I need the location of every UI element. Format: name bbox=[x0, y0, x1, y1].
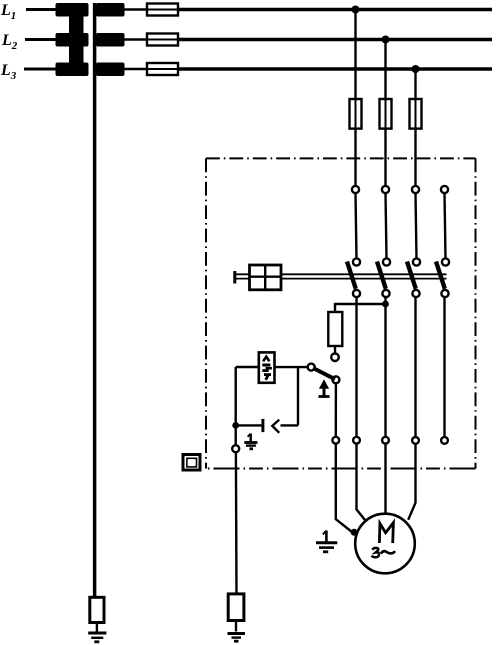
wire W to motor bbox=[408, 444, 415, 520]
wire L1 lead-in bbox=[26, 8, 56, 11]
trip latch arrow bbox=[319, 379, 329, 389]
terminal spare bbox=[441, 437, 448, 444]
wire L1 bus bbox=[178, 8, 492, 12]
wire pole 3 down bbox=[414, 297, 416, 437]
enclosure boundary bottom bbox=[206, 468, 476, 470]
wire pole 1 down bbox=[355, 297, 357, 436]
isolator blade pole 3 bbox=[416, 193, 417, 258]
isolator blade pole 1 bbox=[356, 193, 357, 258]
wire V to motor bbox=[384, 444, 386, 514]
operator box bbox=[250, 265, 282, 290]
terminal block L1 left bbox=[56, 3, 89, 17]
fuse F4 (branch fuse L1) bbox=[355, 99, 357, 129]
linkage bar lower bbox=[236, 278, 447, 280]
switch blade pole 3 bbox=[407, 262, 416, 289]
plug arrow bbox=[272, 420, 279, 433]
wire fuse F6 to switch pole 3 bbox=[414, 129, 416, 186]
wire protection box to trip contact bbox=[275, 366, 308, 368]
trip blade bbox=[313, 368, 335, 379]
wire L2 lead-in bbox=[25, 38, 56, 41]
wire coil to contact bbox=[334, 346, 336, 353]
wire corner to earth node bbox=[234, 367, 236, 445]
fuse F1 (L1 service fuse) bbox=[147, 9, 178, 11]
wire fuse F5 to switch pole 2 bbox=[384, 129, 386, 186]
switch blade pole 4 bbox=[436, 262, 445, 289]
terminal motor W bbox=[412, 437, 419, 444]
operator box divider horizontal bbox=[250, 276, 282, 278]
contact pole 3 lower bbox=[412, 290, 419, 297]
contact pole 1 upper bbox=[352, 186, 359, 193]
switch blade pole 2 bbox=[377, 262, 386, 289]
wire L1 drop bbox=[354, 10, 356, 100]
earth symbol 1 (motor frame) bbox=[325, 531, 328, 542]
contact pole 2 upper bbox=[382, 186, 389, 193]
wire U to motor bbox=[357, 444, 366, 521]
wire L2 block to fuse bbox=[125, 38, 148, 41]
contact pole 1 lower bbox=[353, 290, 360, 297]
svg-text:L1: L1 bbox=[0, 2, 16, 22]
fuse F5 (branch fuse L2) bbox=[385, 99, 387, 129]
junction motor frame bbox=[351, 529, 358, 536]
terminal block L3 right bbox=[96, 63, 125, 77]
class II insulation symbol bbox=[183, 455, 200, 471]
earth electrode left bbox=[90, 597, 104, 622]
enclosure boundary left bbox=[205, 158, 207, 468]
contact pole 2 lower bbox=[382, 290, 389, 297]
terminal motor V bbox=[382, 437, 389, 444]
terminal block L1 right bbox=[96, 3, 125, 17]
junction pole 2 tap bbox=[382, 301, 389, 308]
junction earth node bbox=[232, 422, 239, 429]
wire pivot to terminal bbox=[335, 383, 338, 436]
junction L3 tap bbox=[412, 65, 420, 73]
operator box divider vertical bbox=[264, 265, 266, 290]
motor M1 bbox=[355, 514, 415, 574]
wire branch down bbox=[297, 367, 299, 425]
isolator blade pole 4 bbox=[445, 193, 446, 258]
contact pole 3 middle bbox=[413, 258, 420, 265]
wire pole 4 down bbox=[443, 297, 445, 437]
fuse F2 (L2 service fuse) bbox=[147, 39, 178, 41]
wire L3 bus bbox=[178, 67, 492, 71]
contact pole 3 upper bbox=[412, 186, 419, 193]
wire left to protection box bbox=[236, 366, 259, 368]
wire L3 lead-in bbox=[24, 68, 56, 71]
contact trip upper bbox=[331, 353, 339, 361]
contact pole 4 upper bbox=[441, 186, 448, 193]
wire L2 drop bbox=[384, 40, 386, 100]
junction L1 tap bbox=[352, 6, 360, 14]
PEN conductor vertical bbox=[93, 3, 97, 598]
linkage bar upper bbox=[236, 273, 447, 275]
protection device box bbox=[259, 352, 275, 382]
terminal PE out bbox=[232, 445, 239, 452]
wire fuse F4 to switch pole 1 bbox=[354, 129, 356, 186]
contact pole 2 middle bbox=[383, 258, 390, 265]
contact pole 1 middle bbox=[353, 258, 360, 265]
operator handle T-bar bbox=[233, 271, 236, 284]
switch blade pole 1 bbox=[347, 262, 356, 289]
wire L3 drop bbox=[414, 69, 416, 99]
earth symbol 1 (panel) bbox=[249, 434, 251, 442]
earth electrode middle bbox=[228, 594, 244, 621]
wire PE to electrode bbox=[235, 452, 238, 594]
svg-text:L2: L2 bbox=[1, 32, 18, 52]
isolator blade pole 2 bbox=[386, 193, 387, 258]
terminal block L2 left bbox=[56, 33, 89, 47]
terminal motor U bbox=[353, 437, 360, 444]
wire pole 2 down bbox=[384, 297, 386, 436]
contact pole 4 lower bbox=[441, 290, 448, 297]
wire dot to socket bbox=[238, 424, 261, 426]
terminal block L3 left bbox=[56, 63, 89, 77]
junction L2 tap bbox=[382, 36, 390, 44]
wire tap to release coil bbox=[335, 304, 386, 312]
wire branch horizontal bbox=[281, 424, 299, 426]
enclosure boundary top bbox=[206, 157, 476, 159]
release coil R bbox=[328, 312, 342, 346]
wire L1 block to fuse bbox=[125, 8, 148, 11]
terminal block L2 right bbox=[96, 33, 125, 47]
contact trip left bbox=[308, 364, 315, 371]
socket plate bbox=[261, 419, 264, 432]
fuse F3 (L3 service fuse) bbox=[147, 68, 178, 70]
enclosure boundary right bbox=[475, 158, 477, 468]
wire L3 block to fuse bbox=[125, 68, 148, 71]
contact trip pivot bbox=[332, 376, 339, 383]
fuse F6 (branch fuse L3) bbox=[415, 99, 417, 129]
terminal motor PE bbox=[332, 437, 339, 444]
service box left busbar bbox=[69, 3, 84, 76]
contact pole 4 middle bbox=[442, 258, 449, 265]
svg-text:L3: L3 bbox=[0, 62, 17, 82]
wire PE to motor frame bbox=[336, 444, 352, 532]
wire L2 bus bbox=[178, 38, 492, 42]
